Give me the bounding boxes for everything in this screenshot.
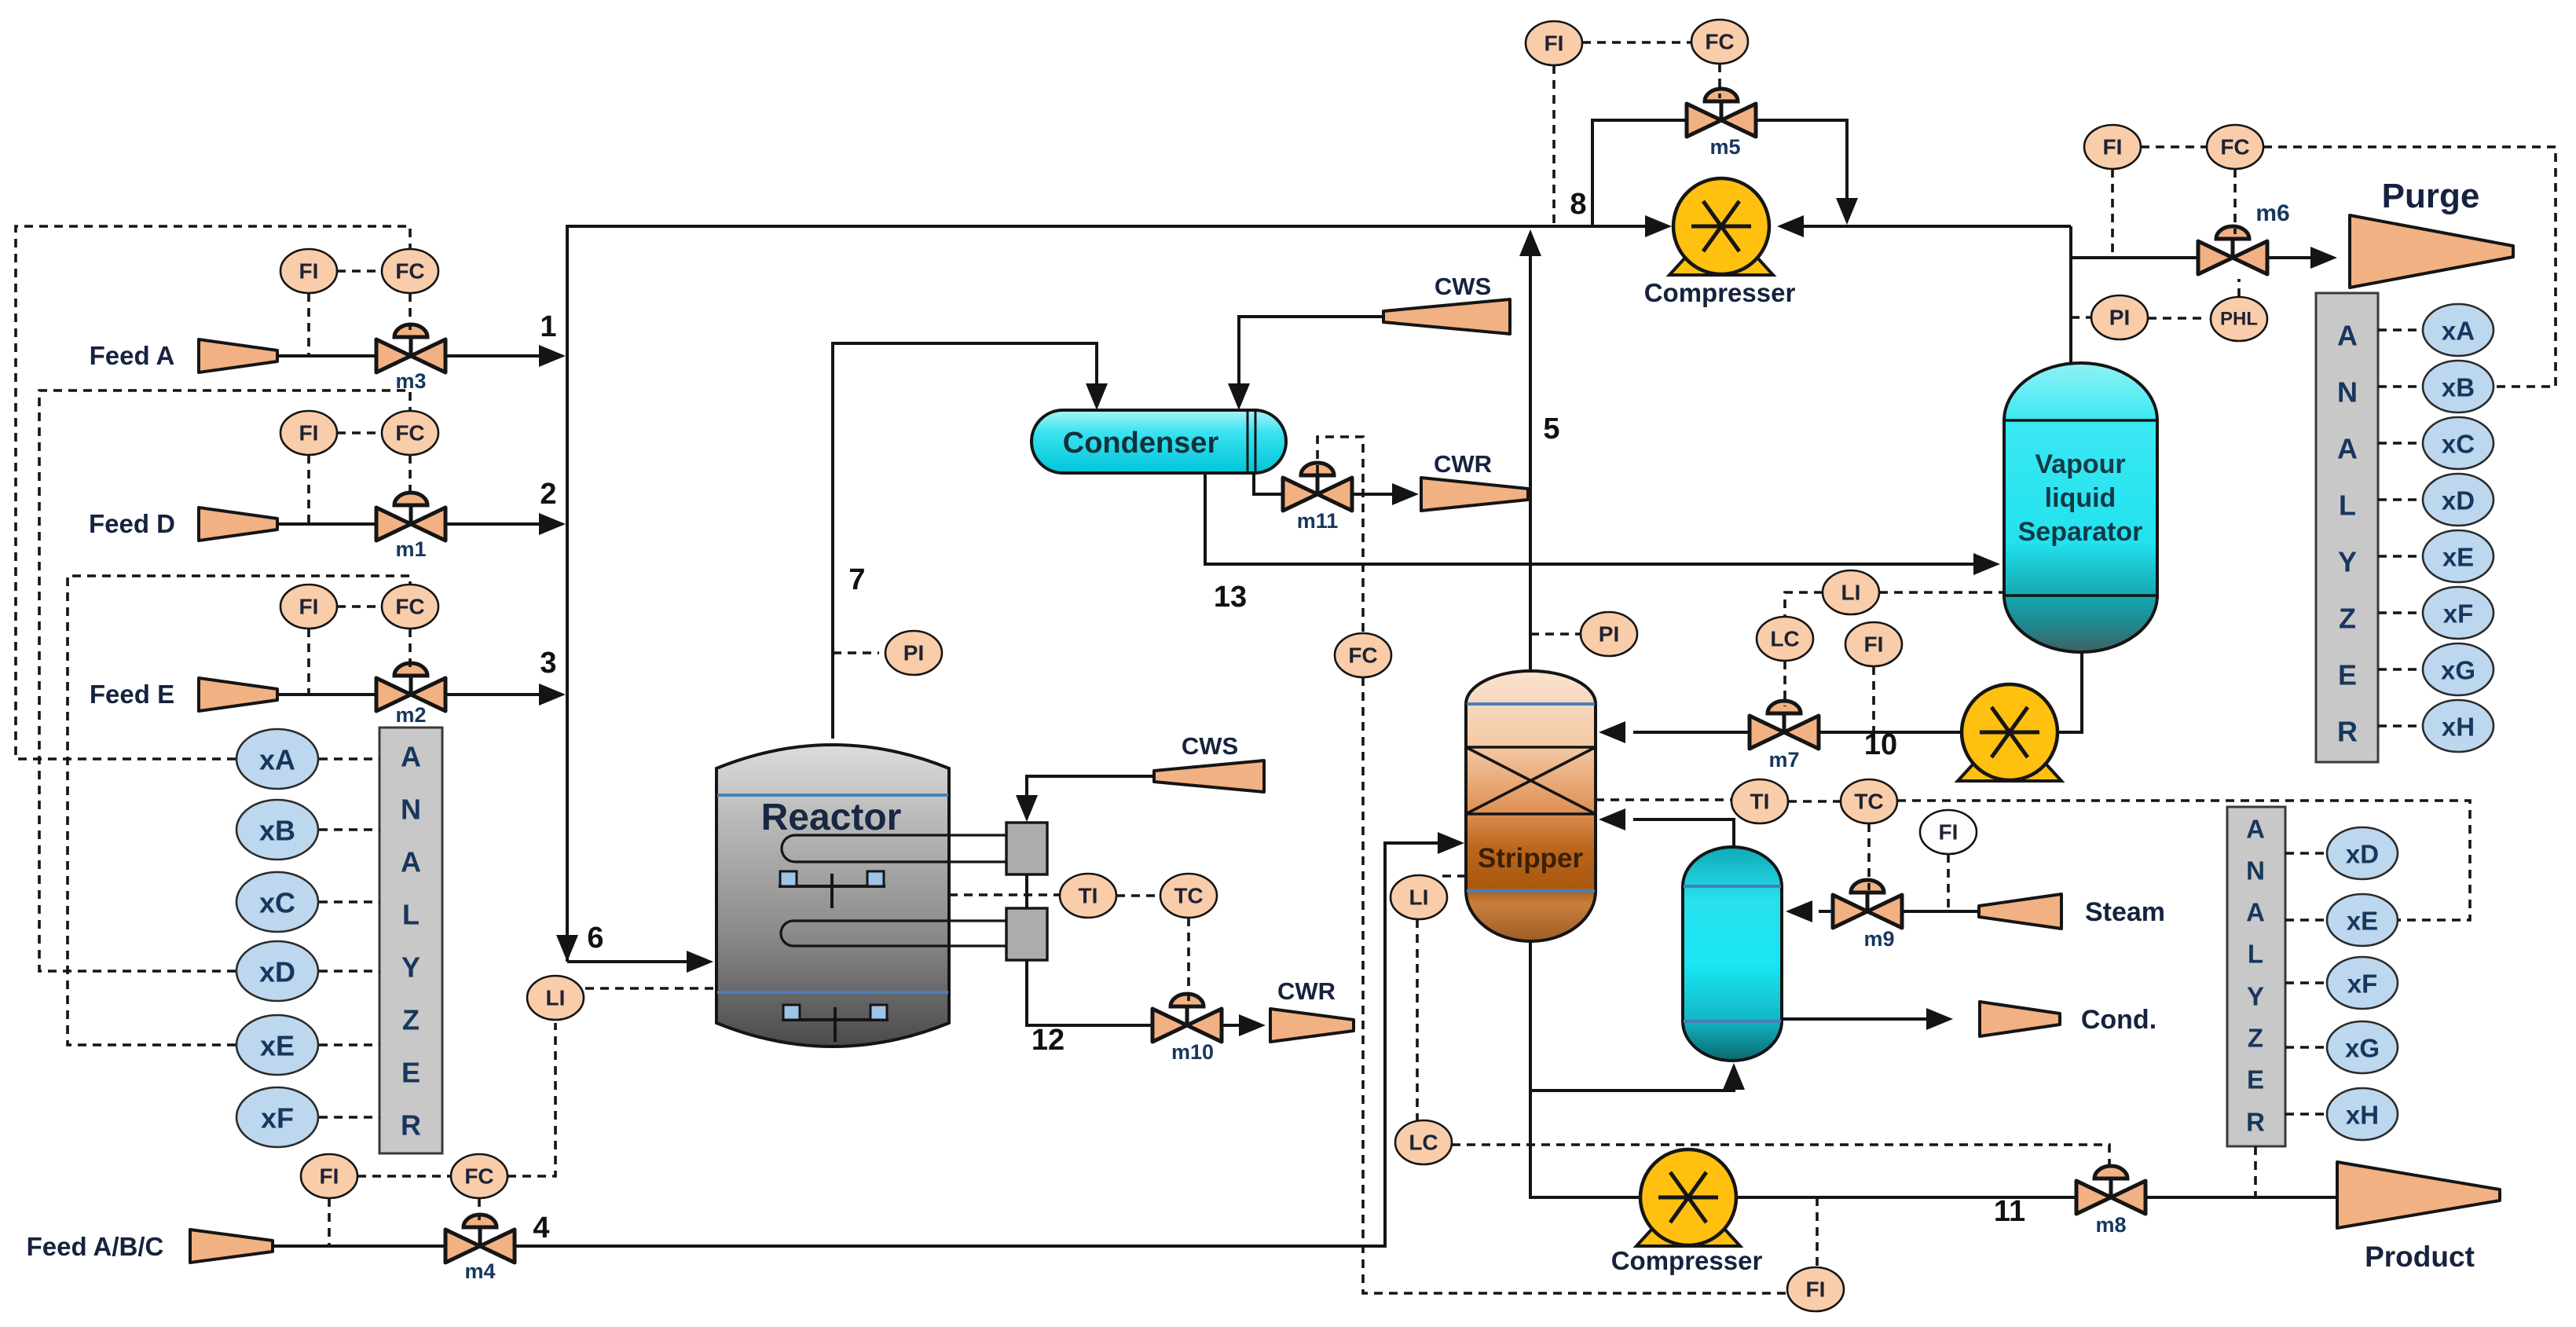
reboiler vessel [1683, 847, 1782, 1061]
signal FC chain down to product FI [1363, 677, 1787, 1293]
signal stripper to LI [1442, 874, 1466, 878]
valve m7 [1750, 701, 1819, 772]
instrument LC (separator level) [1757, 617, 1813, 661]
signal LI to reactor [585, 987, 715, 990]
svg-text:N: N [401, 794, 421, 826]
reactor vessel [716, 745, 949, 1047]
instrument FI (stream 10 flow) [1845, 622, 1902, 666]
instrument TC (stripper temperature) [1841, 779, 1897, 823]
instrument PI (reactor pressure) [885, 631, 942, 675]
pump (separator bottoms) [1958, 684, 2061, 781]
instrument FI (Feed D flow) [280, 411, 337, 455]
instrument FC (condenser cooling) [1335, 633, 1391, 677]
svg-text:xA: xA [2442, 317, 2475, 346]
wire steam through valve m9 into reboiler [1896, 910, 1979, 913]
signal FI-FC purge [2141, 145, 2207, 148]
svg-text:E: E [2247, 1065, 2264, 1094]
composition transmitter xH (product analyzer) [2327, 1088, 2398, 1140]
svg-text:L: L [402, 899, 420, 931]
signal FC to valve m3 [409, 293, 412, 330]
svg-text:8: 8 [1570, 188, 1586, 221]
signal analyzer to xB (purge) [2378, 385, 2422, 388]
svg-text:FC: FC [395, 595, 424, 619]
signal FI to stream 4 line [328, 1198, 331, 1246]
wire reboiler circulation from stripper bottoms [1530, 1083, 1734, 1091]
reboiler level lines [1684, 885, 1781, 888]
svg-text:LI: LI [1409, 885, 1429, 910]
signal rail xA to FC feed A [16, 226, 410, 759]
valve m11 [1283, 463, 1352, 533]
wire compressor bypass with valve m5 [1592, 120, 1687, 226]
valve m4 [445, 1215, 515, 1283]
wire separator bottoms to pump [2058, 652, 2082, 732]
svg-text:m7: m7 [1768, 748, 1799, 772]
svg-text:FC: FC [2220, 135, 2249, 159]
signal xC to analyzer [319, 900, 379, 904]
svg-text:Compresser: Compresser [1611, 1246, 1763, 1275]
composition transmitter xG (product analyzer) [2327, 1021, 2398, 1073]
svg-text:m2: m2 [395, 703, 426, 727]
signal FC to valve m1 [409, 455, 412, 498]
svg-text:xC: xC [259, 887, 295, 919]
svg-text:FI: FI [299, 421, 319, 445]
signal FC to valve m4 [478, 1198, 481, 1220]
wire condenser outlet to valve m11 [1254, 473, 1289, 494]
instrument FC (Feed A flow) [382, 249, 438, 293]
reactor liquid level lines [717, 794, 948, 797]
signal PI to stream 5 [1530, 632, 1581, 636]
off-page connector Feed D [199, 508, 277, 541]
svg-text:N: N [2337, 376, 2358, 409]
signal analyzer to xG (product) [2285, 1046, 2326, 1049]
svg-text:xG: xG [2441, 656, 2475, 685]
instrument FC (Feed D flow) [382, 411, 438, 455]
svg-text:xE: xE [260, 1030, 295, 1062]
signal xF to analyzer [319, 1116, 379, 1119]
svg-text:LI: LI [1841, 581, 1861, 605]
signal stripper to TI [1596, 798, 1731, 801]
signal FI-FC Feed A [337, 269, 382, 273]
off-page connector CWS (reactor cooling water supply) [1154, 761, 1264, 792]
composition transmitter xD (product analyzer) [2327, 827, 2398, 879]
svg-text:CWS: CWS [1182, 732, 1238, 760]
svg-text:FI: FI [299, 259, 319, 284]
svg-text:PI: PI [903, 641, 924, 665]
signal FI-FC Feed D [337, 431, 382, 434]
svg-text:Y: Y [2338, 546, 2357, 578]
reactor agitator lower [782, 1005, 889, 1042]
wire reboiler condensate to Cond. [1783, 1017, 1926, 1021]
stripper level lines [1467, 702, 1595, 706]
coil header box upper [1006, 823, 1047, 874]
svg-text:6: 6 [587, 922, 603, 955]
instrument FI (stream 4 flow) [301, 1154, 357, 1198]
svg-text:m4: m4 [464, 1259, 495, 1283]
svg-text:xE: xE [2442, 543, 2474, 572]
signal valve m11 to FC chain [1317, 437, 1363, 633]
signal PI to separator leg [2071, 316, 2091, 319]
signal analyzer to xH (purge) [2378, 724, 2422, 728]
svg-text:xF: xF [2443, 599, 2474, 629]
svg-text:Cond.: Cond. [2081, 1005, 2156, 1035]
wire between coil header boxes [1025, 874, 1028, 908]
stripper vessel [1466, 671, 1596, 941]
signal TI-TC reactor [1116, 894, 1160, 897]
svg-text:m5: m5 [1709, 135, 1740, 159]
wire stream 10 pump to valve m7 to stripper [1812, 731, 1961, 734]
composition transmitter xE (product analyzer) [2327, 894, 2398, 946]
wire stripper bottoms to product compressor [1530, 941, 1640, 1197]
svg-text:FI: FI [1806, 1278, 1826, 1302]
svg-text:TC: TC [1854, 790, 1883, 814]
instrument FC (stream 4 flow) [451, 1154, 508, 1198]
signal FI to Feed D line [307, 455, 310, 524]
svg-text:N: N [2246, 856, 2265, 885]
svg-text:L: L [2248, 940, 2263, 969]
condenser vessel [1031, 410, 1286, 473]
svg-text:1: 1 [540, 310, 556, 343]
svg-text:m9: m9 [1863, 927, 1894, 951]
svg-text:FI: FI [1864, 632, 1884, 657]
signal product analyzer sample from stream 11 [2254, 1146, 2257, 1197]
svg-text:PI: PI [2109, 306, 2130, 330]
svg-text:xG: xG [2345, 1034, 2380, 1063]
svg-text:FC: FC [395, 421, 424, 445]
analyzer box (product analyzer) [2227, 807, 2285, 1146]
wire stream 4 from Feed A/B/C through m4 to stripper [273, 1245, 452, 1248]
instrument LC (stripper level) [1395, 1120, 1452, 1164]
instrument LI (separator level) [1823, 570, 1879, 614]
svg-text:R: R [2246, 1108, 2265, 1137]
signal FC to LI (reactor level cascade) [508, 1023, 555, 1176]
signal analyzer to xF (purge) [2378, 611, 2422, 614]
reactor cooling coil lower [781, 921, 1006, 946]
svg-text:FC: FC [395, 259, 424, 284]
condenser partition ticks [1247, 411, 1249, 472]
valve m6 [2198, 226, 2267, 274]
wire Feed E line into manifold (stream 3) [277, 693, 376, 696]
vapour liquid separator vessel [2004, 363, 2157, 652]
svg-text:m8: m8 [2095, 1213, 2126, 1237]
signal TI-TC stripper [1788, 800, 1841, 803]
signal analyzer to xA (purge) [2378, 328, 2422, 332]
composition transmitter xB (feed analyzer) [236, 800, 318, 860]
instrument FI (Feed A flow) [280, 249, 337, 293]
instrument FI (Feed E flow) [280, 585, 337, 629]
svg-text:FI: FI [1939, 820, 1959, 845]
signal TC to valve m10 [1187, 918, 1190, 1005]
svg-text:xF: xF [261, 1102, 294, 1135]
svg-text:xD: xD [2442, 486, 2475, 515]
signal analyzer to xE (purge) [2378, 555, 2422, 558]
svg-text:xD: xD [2346, 840, 2379, 869]
separator shoulder lines [2004, 419, 2157, 421]
signal FC to valve m2 [409, 629, 412, 669]
svg-text:Steam: Steam [2085, 897, 2165, 927]
signal rail xD to FC feed D [39, 390, 410, 971]
signal FI to stream 11 [1816, 1197, 1819, 1267]
svg-text:7: 7 [848, 563, 865, 596]
signal TC to xE product analyzer [1897, 801, 2470, 920]
instrument PHL (pressure high limit) [2211, 297, 2267, 341]
wire Feed D line into manifold (stream 2) [277, 522, 376, 526]
instrument FC (recycle flow) [1691, 20, 1748, 64]
off-page connector Cond. [1980, 1002, 2060, 1036]
signal FI to Feed E line [307, 629, 310, 695]
signal xB to analyzer [319, 828, 379, 831]
svg-text:xC: xC [2442, 430, 2475, 459]
valve m2 [376, 663, 445, 727]
svg-text:FI: FI [1545, 31, 1564, 56]
svg-text:11: 11 [1994, 1195, 2025, 1228]
off-page connector CWR (condenser) [1421, 478, 1528, 511]
signal FI to steam line [1947, 854, 1950, 911]
svg-text:FI: FI [320, 1164, 339, 1189]
signal analyzer to xF (product) [2285, 981, 2326, 984]
valve m5 [1687, 89, 1756, 159]
svg-text:xE: xE [2347, 907, 2378, 936]
svg-text:m1: m1 [395, 537, 426, 561]
svg-text:Compresser: Compresser [1644, 278, 1796, 307]
svg-text:m10: m10 [1171, 1040, 1214, 1064]
svg-text:m6: m6 [2255, 200, 2289, 226]
svg-text:CWS: CWS [1435, 273, 1491, 300]
signal analyzer to xC (purge) [2378, 442, 2422, 445]
off-page connector CWR (reactor cooling water return) [1270, 1009, 1354, 1042]
signal analyzer to xE (product) [2285, 918, 2326, 922]
svg-text:Z: Z [402, 1004, 420, 1036]
svg-text:A: A [2337, 433, 2358, 465]
svg-text:4: 4 [533, 1212, 549, 1245]
svg-text:A: A [2337, 320, 2358, 352]
svg-text:Feed A/B/C: Feed A/B/C [27, 1232, 164, 1261]
svg-text:Product: Product [2365, 1241, 2475, 1273]
svg-text:CWR: CWR [1434, 450, 1492, 478]
svg-text:xD: xD [259, 956, 295, 988]
off-page connector Product [2337, 1162, 2500, 1228]
svg-text:Stripper: Stripper [1478, 843, 1584, 874]
svg-text:FI: FI [299, 595, 319, 619]
signal FI-FC stream 4 [357, 1175, 451, 1178]
wire stream 12 coil outlet to valve m10 [1027, 960, 1159, 1025]
off-page connector Steam [1979, 894, 2061, 929]
signal FI to purge line [2111, 169, 2114, 258]
wire stream 13 condenser to separator [1205, 473, 1973, 564]
svg-text:PI: PI [1599, 622, 1619, 647]
reactor agitator upper [779, 871, 885, 908]
svg-text:Z: Z [2339, 603, 2356, 635]
valve m9 [1833, 880, 1902, 951]
svg-text:A: A [401, 741, 421, 773]
signal FC to valve m5 [1718, 64, 1721, 98]
wire CWS to reactor coil header [1027, 776, 1154, 798]
svg-text:E: E [401, 1057, 420, 1089]
signal FI to recycle header [1552, 65, 1555, 226]
svg-text:Vapour: Vapour [2035, 449, 2125, 479]
signal PI-PHL [2148, 317, 2204, 320]
signal LC to valve m7 [1783, 661, 1786, 706]
svg-text:Feed A: Feed A [90, 341, 175, 370]
wire feed manifold / recycle header (streams 6 and 8) [567, 226, 1645, 962]
svg-text:3: 3 [540, 647, 556, 680]
instrument FI (purge flow) [2084, 125, 2141, 169]
compressor (product) [1636, 1149, 1740, 1246]
valve m1 [376, 493, 445, 561]
svg-text:L: L [2339, 489, 2356, 522]
svg-text:FC: FC [1705, 30, 1734, 54]
svg-text:A: A [2246, 815, 2265, 844]
compressor (recycle) [1669, 178, 1773, 275]
signal analyzer to xG (purge) [2378, 668, 2422, 671]
svg-text:10: 10 [1864, 728, 1897, 761]
svg-text:Y: Y [401, 951, 420, 984]
svg-text:xH: xH [2346, 1101, 2379, 1130]
composition transmitter xB (purge analyzer) [2423, 361, 2494, 412]
signal analyzer to xH (product) [2285, 1113, 2326, 1116]
svg-text:Separator: Separator [2018, 517, 2143, 547]
analyzer box (feed analyzer) [379, 728, 442, 1153]
off-page connector Feed A/B/C [190, 1230, 273, 1263]
svg-text:LC: LC [1770, 627, 1799, 651]
signal FI-FC recycle [1582, 41, 1691, 44]
instrument FI (product flow) [1787, 1267, 1844, 1311]
svg-text:FI: FI [2103, 135, 2123, 159]
composition transmitter xD (purge analyzer) [2423, 474, 2494, 526]
svg-text:TI: TI [1079, 884, 1098, 908]
off-page connector Feed E [199, 678, 277, 711]
svg-text:PHL: PHL [2220, 309, 2258, 330]
svg-text:xH: xH [2442, 713, 2475, 742]
svg-text:m11: m11 [1297, 509, 1339, 533]
composition transmitter xG (purge analyzer) [2423, 643, 2494, 695]
composition transmitter xA (purge analyzer) [2423, 304, 2494, 356]
instrument PI (separator pressure) [2091, 295, 2148, 339]
svg-text:xB: xB [259, 815, 295, 847]
svg-text:Z: Z [2248, 1024, 2263, 1053]
svg-text:xA: xA [259, 744, 295, 776]
svg-text:Purge: Purge [2382, 177, 2480, 215]
wire recycle from separator to compressor [1804, 225, 2071, 228]
svg-text:LI: LI [546, 986, 566, 1010]
instrument FI (steam flow) [1920, 810, 1977, 854]
svg-text:xB: xB [2442, 373, 2475, 402]
svg-text:LC: LC [1409, 1131, 1438, 1155]
svg-text:13: 13 [1214, 581, 1247, 614]
signal analyzer to xD (product) [2285, 852, 2326, 855]
svg-text:liquid: liquid [2045, 483, 2116, 513]
svg-text:CWR: CWR [1277, 977, 1336, 1005]
signal xD to analyzer [319, 970, 379, 973]
signal LI to LC separator [1785, 592, 1823, 617]
coil header box lower [1006, 908, 1047, 960]
composition transmitter xE (purge analyzer) [2423, 530, 2494, 582]
instrument LI (reactor level) [527, 976, 584, 1020]
svg-text:TC: TC [1174, 884, 1203, 908]
svg-text:12: 12 [1031, 1024, 1064, 1057]
composition transmitter xF (feed analyzer) [236, 1087, 318, 1147]
signal rail xE to FC feed E [68, 576, 410, 1045]
svg-text:E: E [2338, 659, 2357, 691]
off-page connector CWS (condenser) [1383, 299, 1510, 334]
composition transmitter xE (feed analyzer) [236, 1015, 318, 1075]
svg-text:A: A [2246, 898, 2265, 927]
signal PHL to valve m6 [2237, 279, 2241, 297]
valve m10 [1152, 994, 1222, 1064]
off-page connector Purge [2350, 215, 2513, 288]
signal LI to separator [1879, 591, 2004, 594]
svg-text:2: 2 [540, 478, 556, 511]
signal PI to stream 7 [833, 651, 879, 654]
svg-text:TI: TI [1750, 790, 1770, 814]
instrument PI (stripper pressure) [1581, 612, 1637, 656]
instrument LI (stripper level) [1391, 875, 1447, 919]
signal TC to valve m9 [1867, 823, 1871, 890]
valve m8 [2076, 1166, 2145, 1237]
composition transmitter xH (purge analyzer) [2423, 700, 2494, 752]
instrument TI (reactor temperature) [1060, 874, 1116, 918]
signal FC to valve m6 [2233, 169, 2237, 234]
composition transmitter xC (feed analyzer) [236, 872, 318, 932]
signal reactor to TI [949, 893, 1060, 896]
svg-text:Reactor: Reactor [761, 797, 902, 838]
composition transmitter xD (feed analyzer) [236, 941, 318, 1001]
analyzer box (purge analyzer) [2316, 293, 2378, 762]
svg-text:R: R [2337, 716, 2358, 748]
svg-text:FC: FC [464, 1164, 493, 1189]
svg-text:Feed E: Feed E [90, 680, 174, 709]
signal FI-FC Feed E [337, 605, 382, 608]
signal FI to Feed A line [307, 293, 310, 356]
svg-text:Y: Y [2247, 982, 2264, 1011]
wire stream 11 to valve m8 and Product [1737, 1196, 2083, 1199]
off-page connector Feed A [199, 339, 277, 372]
wire stream 6 into reactor [556, 935, 578, 962]
signal FI to stream 10 [1872, 666, 1875, 732]
wire stream 7 reactor overhead to condenser [833, 343, 1097, 739]
signal xA to analyzer [319, 757, 379, 761]
svg-text:FC: FC [1348, 643, 1377, 668]
composition transmitter xA (feed analyzer) [236, 729, 318, 789]
composition transmitter xC (purge analyzer) [2423, 417, 2494, 469]
signal LC to valve m8 [1452, 1145, 2109, 1174]
signal LI to LC stripper [1416, 919, 1419, 1120]
signal FC to xB purge analyzer [2263, 147, 2556, 387]
svg-text:A: A [401, 846, 421, 878]
signal xE to analyzer [319, 1043, 379, 1047]
wire stream 5 stripper overhead to recycle header [1529, 248, 1532, 673]
wire Feed A line into manifold (stream 1) [277, 354, 376, 357]
valve m3 [376, 324, 445, 393]
composition transmitter xF (purge analyzer) [2423, 587, 2494, 639]
instrument FC (purge flow) [2207, 125, 2263, 169]
instrument FI (recycle flow) [1526, 21, 1582, 65]
reactor cooling coil upper [782, 835, 1006, 862]
composition transmitter xF (product analyzer) [2327, 957, 2398, 1009]
svg-text:Feed D: Feed D [89, 509, 175, 538]
svg-text:5: 5 [1543, 412, 1559, 445]
stripper packing section [1466, 747, 1596, 814]
wire purge from separator inlet leg through valve m6 [2071, 256, 2204, 259]
svg-text:Condenser: Condenser [1063, 427, 1219, 460]
svg-text:R: R [401, 1109, 421, 1142]
svg-text:xF: xF [2347, 970, 2378, 999]
wire reboiler vapour return to stripper [1633, 819, 1734, 846]
instrument TI (stripper temperature) [1731, 779, 1788, 823]
wire CWS into condenser [1239, 317, 1383, 387]
instrument FC (Feed E flow) [382, 585, 438, 629]
signal analyzer to xD (purge) [2378, 498, 2422, 501]
instrument TC (reactor temperature) [1160, 874, 1217, 918]
